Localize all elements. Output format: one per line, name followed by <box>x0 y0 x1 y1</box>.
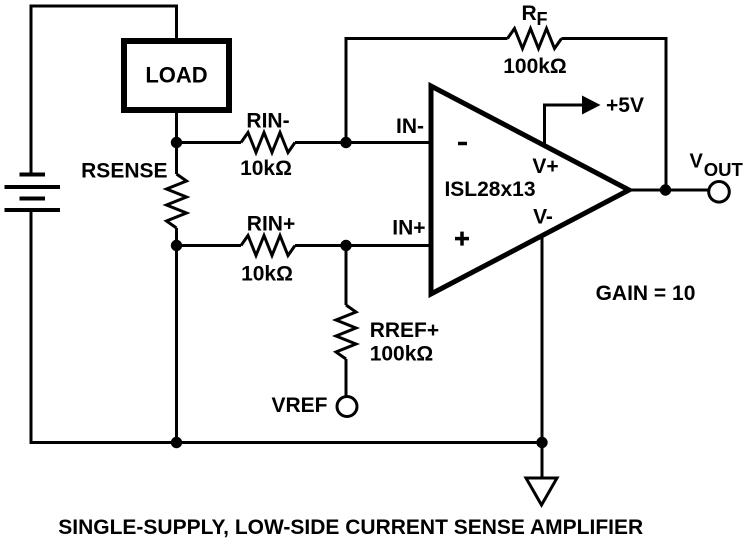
svg-text:F: F <box>537 9 548 29</box>
svg-text:IN-: IN- <box>396 115 424 138</box>
wire RIN- to op-amp IN- <box>295 141 431 144</box>
svg-text:R: R <box>522 2 537 25</box>
svg-text:+5V: +5V <box>606 94 644 117</box>
node junction rail/ground <box>536 437 547 448</box>
wire RIN+ to op-amp IN+ <box>295 244 431 247</box>
svg-text:RIN+: RIN+ <box>247 213 295 236</box>
svg-text:100kΩ: 100kΩ <box>370 343 434 366</box>
terminal VREF <box>271 394 357 417</box>
+5V supply arrow <box>545 94 644 146</box>
inverting input minus sign <box>458 142 467 146</box>
svg-text:RIN-: RIN- <box>246 110 289 133</box>
svg-text:RSENSE: RSENSE <box>81 160 167 183</box>
wire node down to RREF+ <box>345 246 348 306</box>
wire RF tap up and feedback top <box>346 39 508 143</box>
wire battery top to LOAD top <box>31 6 177 175</box>
svg-text:GAIN = 10: GAIN = 10 <box>596 282 696 305</box>
resistor RIN- <box>240 110 295 181</box>
svg-text:IN+: IN+ <box>392 217 425 240</box>
wire node to RIN+ <box>177 244 242 247</box>
svg-text:RREF+: RREF+ <box>370 319 439 342</box>
node junction output/RF <box>660 184 671 195</box>
svg-text:100kΩ: 100kΩ <box>503 55 567 78</box>
svg-text:10kΩ: 10kΩ <box>241 263 293 286</box>
resistor RSENSE <box>81 160 186 229</box>
node junction LOAD/RSENSE/RIN- <box>171 137 182 148</box>
svg-text:10kΩ: 10kΩ <box>240 157 292 180</box>
node junction RIN-/RF tap <box>340 137 351 148</box>
wire op-amp output to VOUT <box>629 189 709 192</box>
resistor RIN+ <box>241 213 295 286</box>
node junction rail/RSENSE <box>171 437 182 448</box>
ground <box>526 443 557 506</box>
svg-text:OUT: OUT <box>704 159 744 180</box>
svg-text:SINGLE-SUPPLY, LOW-SIDE CURREN: SINGLE-SUPPLY, LOW-SIDE CURRENT SENSE AM… <box>58 516 643 539</box>
wire RREF+ to VREF terminal <box>345 359 348 396</box>
resistor RREF+ <box>336 305 439 366</box>
svg-text:V-: V- <box>533 206 553 229</box>
wire node to RIN- <box>177 141 242 144</box>
svg-text:V: V <box>690 151 704 173</box>
terminal VOUT <box>690 151 744 203</box>
op-amp U1 ISL28x13 <box>431 86 629 294</box>
wire LOAD bottom to RSENSE top <box>175 113 178 174</box>
svg-text:LOAD: LOAD <box>145 63 207 88</box>
svg-text:V+: V+ <box>532 155 558 178</box>
svg-text:ISL28x13: ISL28x13 <box>444 178 535 201</box>
wire RF right to output junction <box>562 39 667 191</box>
wire RSENSE bottom to rail <box>175 228 178 443</box>
battery V1 <box>5 175 61 211</box>
node junction RSENSE/RIN+ <box>171 240 182 251</box>
wire battery bottom to ground rail <box>31 210 542 443</box>
load box <box>124 41 229 110</box>
svg-text:VREF: VREF <box>271 394 327 417</box>
resistor RF <box>503 2 567 78</box>
node junction RIN+/RREF+ <box>340 240 351 251</box>
wire V- down to rail junction <box>541 236 544 443</box>
non-inverting input plus sign <box>455 232 469 246</box>
